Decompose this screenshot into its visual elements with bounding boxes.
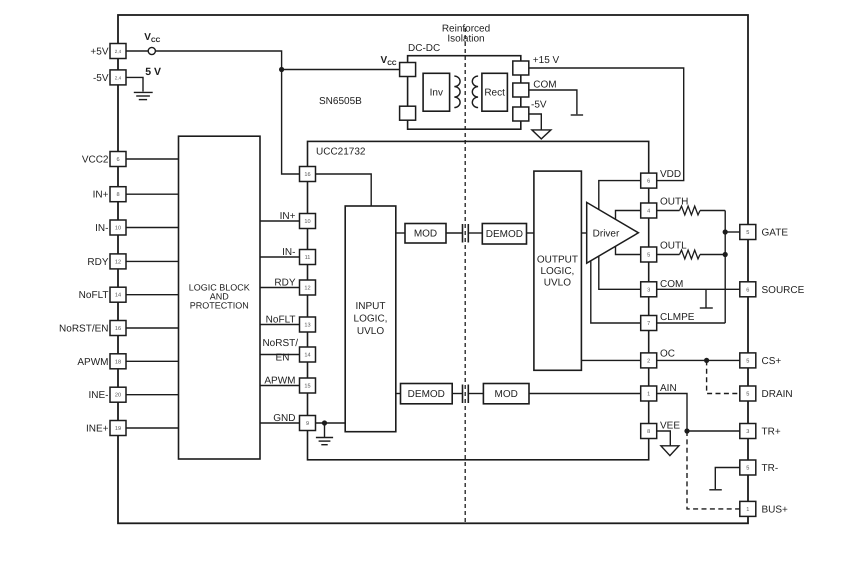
svg-text:5: 5: [746, 358, 749, 364]
svg-text:+15 V: +15 V: [533, 55, 560, 66]
svg-text:19: 19: [115, 426, 121, 432]
svg-text:UCC21732: UCC21732: [316, 147, 366, 158]
svg-text:NoRST/EN: NoRST/EN: [59, 324, 108, 335]
svg-text:COM: COM: [660, 279, 683, 290]
svg-text:INE+: INE+: [86, 424, 109, 435]
svg-text:AIN: AIN: [660, 383, 677, 394]
svg-text:OC: OC: [660, 349, 675, 360]
svg-text:16: 16: [304, 172, 310, 178]
svg-text:5: 5: [746, 392, 749, 398]
svg-text:Rect: Rect: [484, 88, 505, 99]
svg-text:Driver: Driver: [593, 229, 620, 240]
svg-text:BUS+: BUS+: [762, 504, 789, 515]
svg-text:-5V: -5V: [531, 100, 547, 111]
svg-text:5: 5: [746, 466, 749, 472]
svg-text:5: 5: [647, 253, 650, 259]
svg-text:RDY: RDY: [274, 278, 295, 289]
svg-text:10: 10: [115, 226, 121, 232]
svg-text:INPUT: INPUT: [356, 301, 386, 312]
svg-text:CLMPE: CLMPE: [660, 312, 695, 323]
svg-text:Inv: Inv: [430, 88, 443, 99]
svg-text:DEMOD: DEMOD: [408, 389, 445, 400]
svg-text:IN+: IN+: [93, 190, 109, 201]
svg-text:11: 11: [305, 255, 311, 261]
svg-text:MOD: MOD: [414, 229, 437, 240]
svg-text:1: 1: [647, 392, 650, 398]
svg-text:1: 1: [746, 507, 749, 513]
svg-text:UVLO: UVLO: [357, 326, 384, 337]
svg-text:14: 14: [115, 293, 121, 299]
svg-text:LOGIC,: LOGIC,: [354, 314, 388, 325]
svg-text:VCC2: VCC2: [82, 155, 109, 166]
svg-text:DEMOD: DEMOD: [486, 229, 523, 240]
svg-text:INE-: INE-: [89, 390, 109, 401]
svg-text:3: 3: [647, 287, 650, 293]
svg-text:5 V: 5 V: [145, 66, 161, 78]
svg-text:IN+: IN+: [280, 211, 296, 222]
svg-text:COM: COM: [533, 80, 556, 91]
svg-text:OUTL: OUTL: [660, 241, 687, 252]
svg-text:UVLO: UVLO: [544, 278, 571, 289]
svg-text:Isolation: Isolation: [447, 34, 484, 45]
svg-text:OUTPUT: OUTPUT: [537, 255, 578, 266]
svg-text:2,4: 2,4: [115, 75, 122, 80]
svg-text:3: 3: [746, 429, 749, 435]
svg-text:NoRST/: NoRST/: [262, 338, 298, 349]
svg-text:20: 20: [115, 393, 121, 399]
svg-text:PROTECTION: PROTECTION: [190, 301, 249, 311]
svg-text:7: 7: [647, 321, 650, 327]
svg-text:TR+: TR+: [762, 427, 781, 438]
svg-text:LOGIC,: LOGIC,: [540, 266, 574, 277]
svg-text:SN6505B: SN6505B: [319, 96, 362, 107]
svg-text:14: 14: [304, 353, 310, 359]
svg-text:13: 13: [304, 323, 310, 329]
svg-text:NoFLT: NoFLT: [79, 290, 109, 301]
svg-text:RDY: RDY: [87, 257, 108, 268]
svg-text:VDD: VDD: [660, 169, 681, 180]
svg-text:IN-: IN-: [95, 223, 108, 234]
svg-text:EN: EN: [276, 353, 290, 364]
svg-text:GATE: GATE: [762, 228, 789, 239]
svg-text:APWM: APWM: [264, 376, 295, 387]
svg-text:DRAIN: DRAIN: [762, 389, 793, 400]
svg-text:SOURCE: SOURCE: [762, 285, 805, 296]
svg-text:10: 10: [304, 219, 310, 225]
svg-text:MOD: MOD: [495, 389, 518, 400]
svg-text:-5V: -5V: [93, 73, 109, 84]
svg-text:APWM: APWM: [77, 357, 108, 368]
svg-text:15: 15: [304, 384, 310, 390]
svg-text:18: 18: [115, 359, 121, 365]
svg-text:9: 9: [306, 421, 309, 427]
svg-text:8: 8: [116, 192, 119, 198]
svg-text:+5V: +5V: [90, 47, 108, 58]
svg-text:6: 6: [746, 287, 749, 293]
svg-text:NoFLT: NoFLT: [266, 315, 296, 326]
svg-text:4: 4: [647, 209, 650, 215]
svg-text:16: 16: [115, 326, 121, 332]
svg-text:GND: GND: [273, 413, 295, 424]
svg-text:2: 2: [647, 358, 650, 364]
svg-text:CS+: CS+: [762, 356, 782, 367]
svg-text:5: 5: [746, 230, 749, 236]
svg-text:12: 12: [304, 286, 310, 292]
svg-text:2,4: 2,4: [115, 49, 122, 54]
svg-text:VEE: VEE: [660, 421, 680, 432]
svg-text:8: 8: [647, 429, 650, 435]
svg-text:6: 6: [116, 157, 119, 163]
svg-text:6: 6: [647, 179, 650, 185]
svg-text:TR-: TR-: [762, 463, 779, 474]
svg-text:12: 12: [115, 259, 121, 265]
svg-text:DC-DC: DC-DC: [408, 43, 440, 54]
svg-text:IN-: IN-: [282, 247, 295, 258]
svg-text:OUTH: OUTH: [660, 197, 688, 208]
